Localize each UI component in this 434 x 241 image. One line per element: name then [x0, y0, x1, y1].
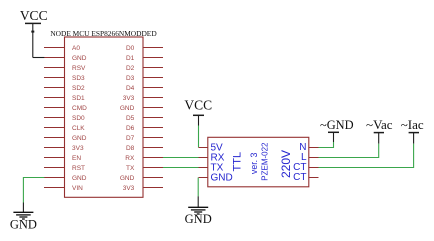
svg-text:SD1: SD1 — [72, 95, 85, 102]
svg-text:SD2: SD2 — [72, 85, 85, 92]
svg-text:D7: D7 — [126, 135, 135, 142]
svg-text:D5: D5 — [126, 115, 135, 122]
svg-text:TTL: TTL — [231, 152, 243, 172]
svg-text:CMD: CMD — [72, 105, 87, 112]
svg-text:VCC: VCC — [20, 8, 48, 23]
svg-text:GND: GND — [72, 55, 87, 62]
svg-text:CLK: CLK — [72, 125, 85, 132]
svg-text:220V: 220V — [279, 150, 293, 178]
svg-text:D8: D8 — [126, 145, 135, 152]
svg-text:GND: GND — [10, 218, 37, 232]
svg-text:GND: GND — [211, 173, 233, 184]
svg-text:~Vac: ~Vac — [366, 117, 393, 132]
svg-text:A0: A0 — [72, 45, 80, 52]
svg-text:EN: EN — [72, 155, 81, 162]
svg-text:D2: D2 — [126, 65, 135, 72]
svg-text:VCC: VCC — [184, 98, 212, 113]
svg-text:D4: D4 — [126, 85, 135, 92]
svg-text:D6: D6 — [126, 125, 135, 132]
svg-text:PZEM-022: PZEM-022 — [261, 142, 270, 181]
svg-text:NODE MCU ESP8266NMODDED: NODE MCU ESP8266NMODDED — [50, 29, 157, 38]
svg-text:TX: TX — [126, 165, 135, 172]
svg-text:SD0: SD0 — [72, 115, 85, 122]
svg-text:RX: RX — [125, 155, 135, 162]
svg-text:~Iac: ~Iac — [401, 117, 424, 132]
svg-text:GND: GND — [72, 175, 87, 182]
svg-text:3V3: 3V3 — [123, 95, 135, 102]
svg-text:3V3: 3V3 — [123, 185, 135, 192]
svg-text:D0: D0 — [126, 45, 135, 52]
svg-text:ver. 3: ver. 3 — [249, 152, 259, 174]
svg-text:GND: GND — [185, 212, 212, 226]
svg-text:VIN: VIN — [72, 185, 83, 192]
svg-text:D3: D3 — [126, 75, 135, 82]
svg-text:RSV: RSV — [72, 65, 86, 72]
svg-text:RST: RST — [72, 165, 85, 172]
svg-text:CT: CT — [293, 172, 306, 183]
svg-text:GND: GND — [120, 175, 135, 182]
svg-text:GND: GND — [120, 105, 135, 112]
svg-text:D1: D1 — [126, 55, 135, 62]
svg-text:GND: GND — [72, 135, 87, 142]
svg-text:3V3: 3V3 — [72, 145, 84, 152]
svg-text:~GND: ~GND — [320, 118, 354, 132]
svg-text:SD3: SD3 — [72, 75, 85, 82]
